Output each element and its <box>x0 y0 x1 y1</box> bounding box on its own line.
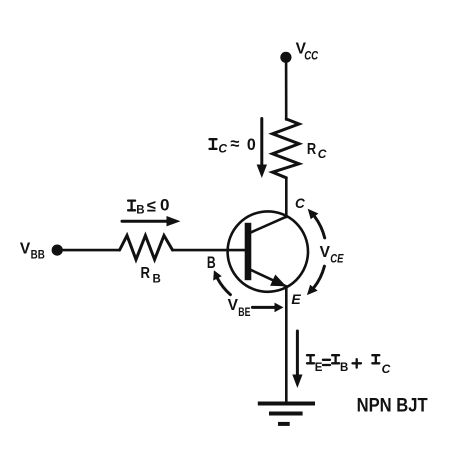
resistor RC <box>273 119 300 178</box>
svg-text:≈: ≈ <box>230 135 239 153</box>
transistor Q1 circle <box>228 211 308 291</box>
wire VCC to RC <box>285 60 288 120</box>
voltage arrow VCE lower arc <box>307 266 325 295</box>
voltage arrow VCE upper arc <box>308 209 325 238</box>
wire RB to base <box>173 249 245 252</box>
current arrow IC <box>257 119 267 179</box>
svg-text:BE: BE <box>238 307 250 319</box>
svg-text:V: V <box>228 297 239 314</box>
label VCC <box>296 41 319 63</box>
svg-text:B: B <box>207 253 216 272</box>
label VCE <box>320 244 344 265</box>
svg-text:B: B <box>340 362 348 374</box>
svg-text:≤: ≤ <box>147 198 156 216</box>
label VBB <box>20 240 45 261</box>
wire RC to collector <box>285 178 288 217</box>
svg-text:E: E <box>315 362 323 374</box>
svg-text:V: V <box>20 240 31 257</box>
node VCC terminal dot <box>280 52 291 63</box>
label IB ≤ 0 <box>128 196 169 216</box>
transistor Q1 emitter arrowhead <box>270 275 286 287</box>
label IC ≈ 0 <box>210 135 256 156</box>
svg-text:E: E <box>291 291 301 307</box>
svg-text:R: R <box>141 265 151 282</box>
transistor Q1 collector line <box>250 217 287 233</box>
svg-text:CE: CE <box>330 253 343 265</box>
voltage arrow VBE to emitter <box>252 303 283 313</box>
svg-text:C: C <box>318 147 327 161</box>
wire VBB to RB <box>57 249 119 252</box>
svg-text:0: 0 <box>247 136 256 154</box>
svg-text:B: B <box>136 204 144 216</box>
svg-text:BB: BB <box>31 250 45 262</box>
transistor Q1 emitter line <box>250 269 287 286</box>
svg-text:B: B <box>153 274 161 286</box>
label VBE <box>228 297 251 319</box>
svg-text:C: C <box>382 362 391 376</box>
transistor Q1 base bar <box>245 223 252 280</box>
svg-text:V: V <box>320 244 331 261</box>
svg-text:CC: CC <box>304 51 319 63</box>
node VBB terminal dot <box>52 245 63 256</box>
ground <box>258 404 315 424</box>
svg-text:C: C <box>218 142 227 156</box>
svg-text:0: 0 <box>160 196 170 214</box>
svg-text:R: R <box>307 141 316 158</box>
label RC value <box>307 141 327 161</box>
resistor RB <box>120 236 173 260</box>
label RB value <box>141 265 161 286</box>
svg-text:C: C <box>295 196 305 211</box>
wire emitter to ground <box>285 286 288 402</box>
current arrow IE <box>292 331 302 388</box>
voltage arrow VBE arc <box>213 270 230 294</box>
current arrow IB <box>122 216 181 226</box>
label IE = IB + IC <box>307 355 391 376</box>
svg-text:NPN BJT: NPN BJT <box>357 395 428 417</box>
